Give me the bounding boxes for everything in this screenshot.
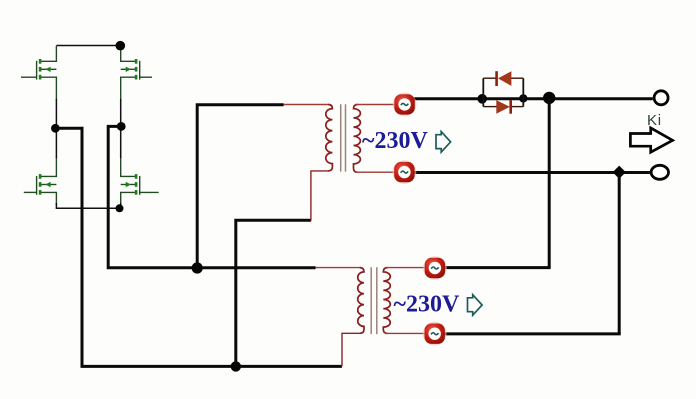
node mid-right junction dot — [117, 122, 126, 131]
wire diamond junction down to T2 secondary bottom (thick) — [618, 172, 621, 334]
transformer T1 primary winding — [326, 105, 333, 171]
wire top diode cathode lead — [483, 77, 496, 79]
node diode-pair right junction dot — [519, 94, 527, 102]
node top net big junction dot — [543, 92, 555, 104]
terminal ball B1 (T1 secondary top, ~) — [394, 94, 415, 115]
node diode-pair left junction dot — [477, 94, 487, 104]
diode D2 (points right) — [496, 100, 512, 114]
wire bottom rail of H-bridge — [56, 203, 118, 208]
wire bottom diode anode lead — [483, 106, 496, 108]
diode D1 (points left) — [495, 71, 511, 86]
wire Q4 source down to bottom rail — [120, 203, 122, 208]
wire main top net: T1 sec top terminal to output (thick) — [414, 97, 653, 100]
svg-text:~230V: ~230V — [394, 292, 460, 318]
wire T2 secondary top terminal to riser (thick) — [445, 266, 551, 269]
transistor Q4 (bottom-right N-MOSFET of H-bridge) — [121, 157, 159, 205]
wire mid-right node down then right (thick) — [108, 126, 315, 267]
node bottom bus junction dot — [231, 361, 241, 371]
wire diode branch right riser — [522, 78, 524, 106]
wire T2 secondary bottom lead (red) — [385, 332, 426, 334]
terminal ball B4 (T2 secondary bottom, ~) — [424, 323, 445, 344]
wire junction up to T1 primary top (thick) — [197, 105, 284, 268]
node mid-left junction dot — [51, 124, 60, 133]
wire Q1 source to mid-left node — [55, 99, 57, 128]
symbol small output arrow for T1 — [436, 132, 451, 153]
wire top rail of H-bridge — [56, 45, 120, 47]
wire T1 primary bottom lead (red) — [311, 171, 329, 221]
svg-text:Ki: Ki — [647, 112, 662, 129]
terminal ball B2 (T1 secondary bottom, ~) — [394, 162, 415, 183]
transistor Q3 (bottom-left N-MOSFET of H-bridge) — [24, 157, 57, 205]
transformer T1 secondary winding — [354, 105, 361, 173]
node top-rail junction dot — [116, 41, 126, 51]
wire bottom diode cathode lead — [512, 106, 524, 108]
wire T2 primary bottom lead (red) — [342, 333, 361, 366]
transformer T2 primary winding — [358, 268, 364, 334]
symbol big Ki direction arrow — [630, 128, 672, 152]
symbol small output arrow for T2 — [468, 295, 483, 316]
transistor Q2 (top-right N-MOSFET of H-bridge) — [121, 46, 152, 100]
wire T2 secondary bottom terminal to riser (thick) — [444, 332, 621, 335]
transformer T2 secondary winding — [383, 268, 390, 334]
terminal output top (open circle) — [654, 91, 668, 105]
wire top diode anode lead — [511, 77, 523, 79]
wire Q4 drain to mid-right node — [120, 126, 122, 158]
wire T1 secondary bottom lead (red) — [356, 171, 396, 173]
wire mid-left node down to bottom bus (thick) — [55, 128, 342, 366]
node bottom-rail junction dot — [116, 204, 124, 212]
terminal output bottom (open ellipse) — [651, 165, 668, 179]
wire bottom output net: T1 sec bottom terminal to output (thick) — [414, 171, 650, 174]
wire T1 secondary top lead (red) — [356, 104, 396, 106]
wire T1 primary top lead (red) — [284, 104, 329, 106]
wire Q3 drain to mid-left node — [55, 128, 57, 158]
wire Q2 source to mid-right node — [120, 99, 122, 126]
terminal ball B3 (T2 secondary top, ~) — [424, 257, 445, 278]
node diamond junction on bottom output net — [613, 166, 626, 179]
wire diode branch left riser — [482, 78, 484, 106]
transistor Q1 (top-left N-MOSFET of H-bridge) — [21, 46, 56, 100]
wire bottom bus up to T1 primary bottom (thick) — [236, 220, 311, 366]
node junction dot feeding T1 primary top — [192, 262, 203, 273]
transformer T1 core — [341, 104, 346, 171]
wire T2 primary top lead (red) — [316, 267, 361, 269]
transformer T2 core — [371, 267, 377, 334]
wire T2 secondary top lead (red) — [385, 267, 426, 269]
svg-text:~230V: ~230V — [362, 128, 428, 154]
wire big junction down to T2 secondary top (thick) — [548, 98, 551, 268]
